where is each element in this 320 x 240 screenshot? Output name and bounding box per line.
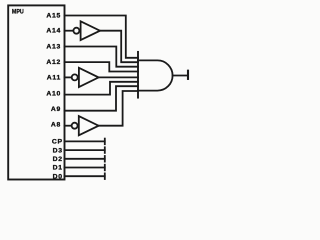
wire D3	[65, 149, 105, 151]
terminal tick D2	[104, 156, 106, 162]
wire A10 to AND gate input 6	[65, 82, 139, 95]
inverter U3 triangle	[79, 68, 99, 87]
wire A8 inverter output to AND gate input 8	[99, 91, 138, 126]
wire CP	[65, 140, 105, 142]
wire A11 inverter output to AND gate input 5	[99, 76, 138, 78]
svg-text:A10: A10	[46, 90, 61, 97]
output terminal tick	[187, 71, 189, 79]
svg-text:A13: A13	[46, 43, 61, 50]
svg-text:A12: A12	[46, 59, 61, 66]
svg-text:CP: CP	[52, 139, 63, 146]
wire D1	[65, 167, 105, 169]
inverter U3 input bubble	[72, 74, 78, 80]
inverter U4 input bubble	[72, 123, 78, 129]
svg-text:A11: A11	[47, 74, 61, 81]
wire A12 to AND gate input 4	[65, 62, 139, 71]
wire D0	[65, 175, 105, 177]
svg-text:D3: D3	[53, 147, 63, 154]
wire D2	[65, 158, 105, 160]
inverter U2 input bubble	[73, 28, 79, 34]
wire A15 to AND gate input 1	[65, 16, 139, 58]
inverter U4 triangle	[79, 116, 99, 135]
svg-text:A15: A15	[46, 13, 61, 20]
svg-text:MPU: MPU	[12, 8, 24, 15]
wire A11 to inverter input	[65, 76, 72, 78]
svg-text:D1: D1	[53, 165, 63, 172]
svg-text:D0: D0	[53, 173, 63, 180]
terminal tick D0	[104, 173, 106, 179]
svg-text:A8: A8	[51, 121, 61, 128]
svg-text:A14: A14	[46, 28, 61, 35]
wire A9 to AND gate input 7	[65, 86, 139, 111]
terminal tick CP	[104, 139, 106, 145]
wire A14 inverter output to AND gate input 2	[100, 31, 138, 63]
svg-text:D2: D2	[53, 156, 63, 163]
wire A14 to inverter input	[65, 30, 74, 32]
svg-text:A9: A9	[51, 106, 61, 113]
MPU block U1	[8, 5, 64, 179]
wire A13 to AND gate input 3	[65, 47, 139, 67]
AND gate U5 body	[138, 60, 173, 90]
terminal tick D1	[104, 165, 106, 171]
wire AND gate output	[173, 75, 188, 77]
terminal tick D3	[104, 147, 106, 153]
AND gate U5 input bar	[137, 52, 139, 98]
inverter U2 triangle	[81, 21, 100, 40]
wire A8 to inverter input	[65, 125, 72, 127]
